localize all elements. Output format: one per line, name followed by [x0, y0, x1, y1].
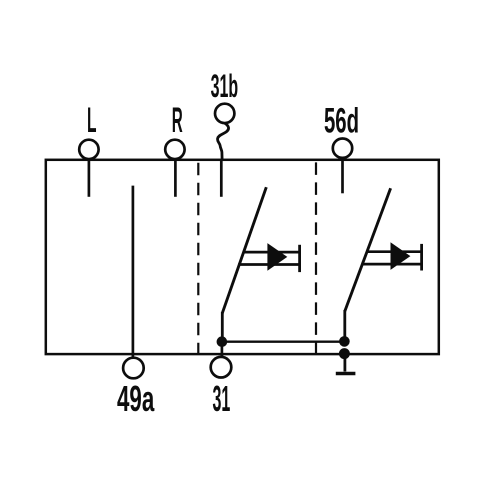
terminal 31b squiggle lead	[218, 123, 229, 159]
junction node B	[339, 336, 350, 347]
junction node C on box edge	[339, 348, 350, 359]
switch S1 lever	[222, 187, 266, 313]
ground stub wire	[343, 354, 346, 372]
switch S2 actuator lower line	[362, 263, 421, 266]
terminal L stub wire	[88, 161, 91, 197]
switch S1 actuator lower line	[238, 263, 299, 266]
wire from 49a up into box	[132, 186, 135, 357]
terminal R circle	[165, 140, 184, 159]
terminal 49a circle	[123, 358, 144, 379]
terminal 31 circle	[211, 357, 232, 378]
switch S2 lever	[345, 188, 391, 311]
svg-text:L: L	[87, 101, 97, 140]
svg-text:R: R	[172, 101, 183, 140]
svg-text:31: 31	[213, 378, 231, 419]
terminal 31b circle	[215, 104, 234, 123]
terminal L circle	[79, 140, 98, 159]
switch S2 pivot wire	[343, 310, 346, 342]
terminal 31b stub wire inside box	[220, 161, 223, 197]
switch S2 actuator end bar	[420, 244, 423, 271]
ground bar	[336, 372, 356, 376]
switch S1 actuator end bar	[298, 245, 301, 272]
dashed separator line 2	[315, 162, 317, 355]
wire junction A to terminal 31	[221, 342, 224, 357]
switch S1 pivot wire	[221, 312, 224, 343]
svg-text:31b: 31b	[211, 68, 239, 104]
dashed separator line 1	[197, 163, 199, 355]
switch S2 actuator arrow head	[391, 242, 411, 270]
switch S1 actuator upper line	[243, 251, 300, 254]
terminal 56d stub wire	[341, 159, 344, 194]
svg-text:49a: 49a	[117, 378, 155, 419]
svg-text:56d: 56d	[324, 100, 359, 140]
wire between switch pivots	[222, 341, 345, 343]
terminal R stub wire	[174, 161, 177, 197]
switch S1 actuator arrow head	[267, 243, 287, 271]
enclosure box	[46, 160, 439, 354]
junction node A	[217, 336, 228, 347]
switch S2 actuator upper line	[367, 250, 422, 253]
terminal 56d circle	[333, 139, 352, 158]
